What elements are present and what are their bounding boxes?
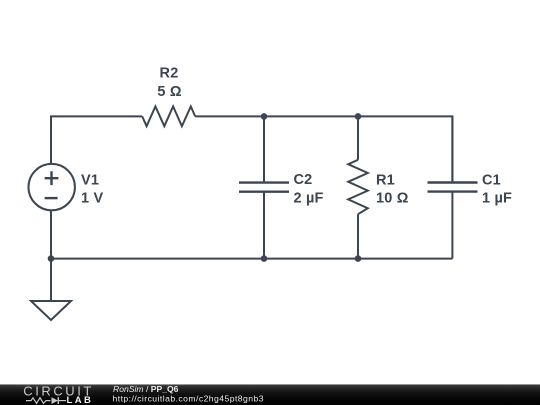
wire top middle (R2 to node A) bbox=[195, 115, 264, 117]
wire top (node A to node B) bbox=[264, 115, 358, 117]
svg-text:R2: R2 bbox=[160, 66, 179, 82]
ground bbox=[31, 301, 71, 320]
svg-text:V1: V1 bbox=[81, 173, 99, 189]
svg-text:5 Ω: 5 Ω bbox=[157, 84, 181, 100]
wire C2 bottom lead bbox=[263, 192, 265, 259]
CircuitLab logo diode bbox=[52, 397, 59, 404]
svg-text:2 µF: 2 µF bbox=[294, 191, 324, 207]
bottom node junction dot C2 bbox=[261, 255, 268, 262]
svg-text:LAB: LAB bbox=[67, 395, 94, 405]
resistor R1 bbox=[348, 160, 368, 214]
svg-text:C2: C2 bbox=[294, 172, 313, 188]
wire top-right (node B to C1 corner) bbox=[358, 116, 452, 182]
wire V1 bottom to ground node bbox=[50, 211, 52, 259]
capacitor C1 bbox=[428, 183, 478, 192]
wire ground stem bbox=[50, 259, 52, 301]
svg-text:RonSim / PP_Q6: RonSim / PP_Q6 bbox=[113, 384, 179, 394]
svg-text:http://circuitlab.com/c2hg45pt: http://circuitlab.com/c2hg45pt8gnb3 bbox=[113, 393, 264, 403]
bottom node junction dot R1 bbox=[355, 255, 362, 262]
CircuitLab logo resistor squiggle bbox=[26, 398, 51, 404]
wire bottom horizontal bbox=[51, 258, 452, 260]
capacitor C2 bbox=[239, 183, 289, 192]
svg-text:C1: C1 bbox=[482, 173, 501, 189]
svg-text:1 V: 1 V bbox=[81, 191, 103, 207]
wire R1 top lead bbox=[357, 116, 359, 159]
svg-text:1 µF: 1 µF bbox=[482, 191, 512, 207]
svg-text:10 Ω: 10 Ω bbox=[376, 191, 409, 207]
ground node junction dot bbox=[48, 255, 55, 262]
wire C2 top lead bbox=[263, 116, 265, 182]
node B junction dot bbox=[355, 113, 362, 120]
node A junction dot bbox=[261, 113, 268, 120]
wire C1 top lead bbox=[451, 116, 453, 182]
wire C1 bottom lead bbox=[451, 192, 453, 259]
svg-text:R1: R1 bbox=[376, 173, 395, 189]
resistor R2 bbox=[142, 106, 195, 126]
wire R1 bottom lead bbox=[357, 214, 359, 258]
voltage source V1 bbox=[29, 164, 75, 210]
wire top-left horizontal (V1 top to R2) bbox=[51, 116, 142, 163]
